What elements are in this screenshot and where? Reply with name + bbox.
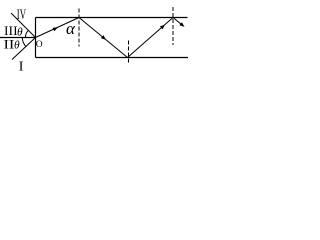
arrowhead on segment 2 [101, 35, 106, 40]
svg-text:θ: θ [14, 40, 20, 52]
ray segment 2: P1 to P2 [79, 18, 128, 58]
slab top face [36, 17, 188, 19]
normal at O (horizontal axis line) [0, 37, 36, 39]
slab bottom face [36, 57, 189, 59]
arrowhead on segment 1 [53, 27, 58, 31]
arrowhead on segment 3 [160, 25, 165, 30]
arrowhead on segment 4 [179, 22, 184, 27]
svg-text:III: III [4, 23, 18, 38]
svg-text:IV: IV [17, 6, 26, 23]
slab left end face [35, 18, 37, 58]
refracted ray segment 1: O to P1 [36, 18, 80, 38]
svg-text:II: II [4, 38, 15, 52]
svg-text:O: O [36, 40, 43, 50]
angle arc theta upper (between upper-left ray and normal) [25, 30, 28, 37]
angle arc theta lower (between normal and lower-left ray) [22, 38, 26, 47]
ray segment 3: P2 to P3 [128, 18, 174, 58]
dashed normal N2 at P2 [128, 41, 130, 64]
incident ray upper-left (rays III/IV direction) [11, 13, 36, 38]
svg-text:I: I [19, 60, 24, 75]
dashed normal N3 at P3 [172, 7, 174, 45]
svg-text:α: α [66, 19, 76, 38]
reflected ray segment 4 at P3 [173, 18, 182, 25]
svg-text:θ: θ [17, 26, 23, 38]
dashed normal N1 at P1 [78, 9, 80, 47]
incident ray lower-left (rays I/II direction) [12, 38, 36, 60]
